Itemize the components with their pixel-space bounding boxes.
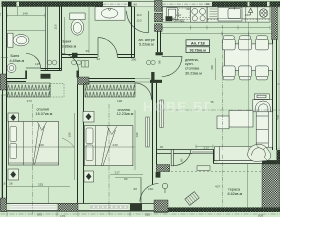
chairs bottom row xyxy=(222,66,268,80)
bottom checker at terrace door xyxy=(154,200,168,213)
svg-text:склад.: склад. xyxy=(174,19,185,23)
bath2 window in top wall xyxy=(103,2,128,6)
wall step connector xyxy=(213,150,215,164)
bedroom2 entry door xyxy=(135,83,152,100)
svg-text:240: 240 xyxy=(148,187,153,191)
svg-text:8.62кв.м: 8.62кв.м xyxy=(228,192,243,196)
svg-text:дневна,: дневна, xyxy=(185,58,199,62)
living/terrace wall lower segment xyxy=(214,161,277,164)
svg-text:125: 125 xyxy=(35,62,40,66)
nightstand bedroom2 bottom xyxy=(84,171,94,182)
svg-text:213: 213 xyxy=(204,145,209,149)
wall bath2/antre xyxy=(132,7,135,58)
sofa xyxy=(256,112,272,147)
svg-text:253: 253 xyxy=(38,183,43,187)
svg-text:3.86кв.м: 3.86кв.м xyxy=(62,44,77,48)
left wall ticks xyxy=(1,58,8,96)
left exterior wall xyxy=(3,7,7,204)
svg-text:92: 92 xyxy=(97,57,101,61)
terrace drain symbol xyxy=(162,183,168,193)
svg-text:28: 28 xyxy=(9,182,13,186)
svg-text:5.22кв.м: 5.22кв.м xyxy=(139,42,154,46)
terrace right wall hatch xyxy=(262,164,280,208)
bath1 door xyxy=(26,54,41,69)
svg-text:375: 375 xyxy=(37,213,42,217)
sink unit xyxy=(218,7,242,21)
dimension lines xyxy=(7,7,270,203)
kitchen counter xyxy=(163,7,271,22)
bedroom2 dims xyxy=(84,110,135,170)
svg-text:115: 115 xyxy=(54,24,58,29)
entry doorway threshold xyxy=(135,2,155,6)
svg-text:40: 40 xyxy=(160,145,164,149)
left wall hatch block bottom xyxy=(0,198,6,212)
bottom outside dimension line xyxy=(1,212,281,217)
washing machine xyxy=(259,9,268,18)
kitchen upper cabinets dashed xyxy=(163,8,271,20)
svg-text:210: 210 xyxy=(176,13,181,17)
chairs top row xyxy=(222,36,268,50)
terrace bench xyxy=(185,192,199,206)
svg-text:столова: столова xyxy=(185,67,200,71)
svg-text:190: 190 xyxy=(135,132,139,137)
svg-text:460: 460 xyxy=(210,65,214,70)
armchair xyxy=(253,100,272,112)
svg-text:240: 240 xyxy=(245,13,250,17)
left wall hatch block mid xyxy=(0,74,6,90)
svg-text:12.23кв.м: 12.23кв.м xyxy=(117,112,134,116)
counter dividers xyxy=(207,7,270,22)
top wall hatched segments xyxy=(2,2,17,7)
hall wall mid segment xyxy=(41,69,62,71)
bed bedroom2 xyxy=(84,126,133,166)
checker block right of terrace door xyxy=(156,165,170,172)
hall to living door xyxy=(162,56,182,76)
dining table xyxy=(225,44,273,71)
svg-text:190: 190 xyxy=(117,99,122,103)
svg-text:435: 435 xyxy=(276,115,280,120)
floor background xyxy=(0,0,280,217)
radiator living xyxy=(160,100,163,128)
apartment label box xyxy=(186,40,210,53)
left outside vertical dim xyxy=(0,95,2,200)
svg-text:437: 437 xyxy=(215,185,220,189)
lounge chair xyxy=(248,144,271,161)
svg-text:кухн.: кухн. xyxy=(185,62,194,66)
svg-text:90: 90 xyxy=(124,177,128,181)
svg-text:20: 20 xyxy=(206,2,210,6)
svg-text:290: 290 xyxy=(39,143,44,147)
svg-text:93.73кв.м: 93.73кв.м xyxy=(190,48,207,52)
boiler symbol xyxy=(249,8,253,15)
wall stub at antre corner xyxy=(156,52,163,55)
ground line under bottom wall xyxy=(1,211,169,213)
svg-text:ап. антре: ап. антре xyxy=(139,38,155,42)
electrical symbols in hall xyxy=(47,60,155,67)
svg-text:16: 16 xyxy=(2,182,6,186)
wardrobe bedroom1 xyxy=(7,83,64,97)
window axes bedrooms xyxy=(32,104,34,216)
checker block at bedroom divider top xyxy=(77,77,89,85)
pouf xyxy=(217,116,229,129)
terrace door from living xyxy=(171,150,191,166)
svg-text:Баня: Баня xyxy=(63,40,72,44)
bottom wall bedroom1 window xyxy=(7,204,79,211)
bedroom2 terrace door xyxy=(140,178,159,204)
svg-text:30.23кв.м: 30.23кв.м xyxy=(185,72,202,76)
right outside dim line xyxy=(277,7,280,149)
top exterior wall band borders xyxy=(2,2,281,7)
bottom wall bedroom2 xyxy=(78,204,157,211)
svg-text:40: 40 xyxy=(134,3,138,7)
bath1 inner line xyxy=(6,30,45,32)
terrace dashed boundary xyxy=(159,171,262,173)
terrace bottom edge band xyxy=(168,207,280,212)
wall shaft/bath2 xyxy=(60,7,62,71)
wardrobe bedroom2 xyxy=(85,83,135,97)
svg-text:190: 190 xyxy=(68,132,72,137)
bath2 door xyxy=(98,38,117,57)
svg-text:170: 170 xyxy=(60,214,65,217)
svg-text:90: 90 xyxy=(134,187,138,191)
hall wall horizontal xyxy=(7,79,136,82)
stove xyxy=(191,7,208,22)
window bench xyxy=(215,147,256,161)
right exterior wall xyxy=(273,7,277,151)
svg-text:4.69кв.м: 4.69кв.м xyxy=(10,59,25,63)
bedroom1 dims xyxy=(9,113,75,180)
construction axis line xyxy=(222,25,224,150)
party wall checker at entry xyxy=(155,1,163,12)
coffee table xyxy=(229,111,253,128)
svg-text:390: 390 xyxy=(131,57,136,61)
corridor window band in top wall xyxy=(162,2,212,6)
fridge xyxy=(166,8,178,22)
bed bedroom1 xyxy=(9,122,59,166)
living horizontal axis xyxy=(158,109,280,111)
svg-text:110: 110 xyxy=(137,13,142,17)
bath2 bottom wall xyxy=(62,55,135,58)
svg-text:спалня: спалня xyxy=(118,108,130,112)
right wall hatch top xyxy=(272,7,278,40)
nightstand bedroom1 top xyxy=(8,113,19,122)
nightstand bedroom1 bottom xyxy=(8,169,19,180)
nightstand bedroom2 xyxy=(83,112,94,123)
svg-text:НОВЕ БГ: НОВЕ БГ xyxy=(143,100,213,115)
bath1 sink xyxy=(7,64,16,73)
svg-text:75: 75 xyxy=(0,13,2,17)
living wall vertical xyxy=(153,31,161,185)
svg-text:спалня: спалня xyxy=(37,108,49,112)
TV shelf xyxy=(254,94,269,99)
bath2 vanity sink xyxy=(95,7,125,20)
svg-text:173: 173 xyxy=(27,99,32,103)
bath1 toilet xyxy=(8,33,30,47)
svg-text:217: 217 xyxy=(115,171,120,175)
entry door xyxy=(127,11,149,33)
living area boundary line xyxy=(161,33,273,35)
bath2 toilet xyxy=(70,13,85,35)
svg-text:90: 90 xyxy=(180,158,184,162)
svg-text:110: 110 xyxy=(137,19,142,23)
bedroom divider wall xyxy=(78,85,84,204)
wall bath1/shaft xyxy=(46,7,48,71)
dark block under divider xyxy=(58,203,78,211)
terrace small bench xyxy=(197,166,210,171)
bedroom1 hall door xyxy=(62,54,79,71)
svg-text:98: 98 xyxy=(158,60,162,64)
svg-text:525: 525 xyxy=(145,213,150,217)
svg-text:Ап. Г18: Ап. Г18 xyxy=(191,40,206,45)
svg-text:40: 40 xyxy=(86,49,90,53)
svg-text:42: 42 xyxy=(186,7,190,11)
svg-text:230: 230 xyxy=(113,143,118,147)
svg-text:140: 140 xyxy=(23,12,28,16)
radiator bedroom2 xyxy=(146,117,149,147)
svg-text:16.07кв.м: 16.07кв.м xyxy=(36,112,53,116)
svg-text:505: 505 xyxy=(258,214,263,217)
living/terrace wall upper segment xyxy=(157,150,215,154)
svg-text:Баня: Баня xyxy=(11,54,20,58)
